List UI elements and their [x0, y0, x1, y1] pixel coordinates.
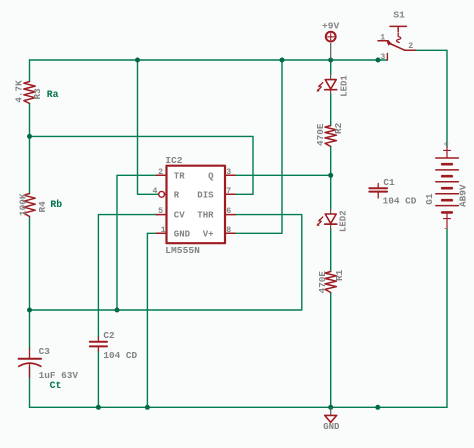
node dot pin1 riser on ground rail — [145, 405, 150, 410]
wire Ra/Rb junction to DIS (net B) — [30, 136, 254, 194]
wire Q output to LED junction — [233, 174, 331, 176]
svg-text:GND: GND — [174, 229, 191, 239]
svg-text:C3: C3 — [39, 346, 51, 357]
svg-text:C1: C1 — [383, 177, 395, 188]
pin 1 GND — [156, 232, 166, 234]
svg-text:8: 8 — [226, 226, 231, 235]
svg-text:6: 6 — [226, 207, 231, 216]
switch pin 2 — [405, 49, 416, 51]
svg-text:DIS: DIS — [197, 190, 214, 200]
pin 3 Q — [225, 174, 235, 176]
battery G1 AB9V — [446, 147, 448, 229]
svg-text:R2: R2 — [333, 122, 344, 134]
node dot Ra/Rb junction — [27, 134, 32, 139]
svg-text:C2: C2 — [103, 330, 115, 341]
wire THR to TR/Ct net y=310 — [30, 215, 302, 310]
node dot Q / LED chain — [328, 173, 333, 178]
svg-text:5: 5 — [158, 207, 163, 216]
capacitor C3 1uF 63V polarized — [29, 349, 31, 378]
svg-text:CV: CV — [174, 211, 185, 221]
svg-text:Q: Q — [208, 171, 214, 181]
wire pin1 GND riser — [147, 233, 158, 407]
node dot C1 riser / switch pin3 — [376, 58, 381, 63]
svg-text:IC2: IC2 — [165, 155, 183, 166]
svg-text:104 CD: 104 CD — [103, 350, 137, 361]
ground GND symbol — [330, 407, 332, 415]
svg-text:GND: GND — [323, 422, 340, 432]
node dot TR riser on y310 — [115, 308, 120, 313]
power +9V symbol — [330, 44, 332, 61]
svg-text:LED2: LED2 — [339, 210, 349, 232]
svg-text:V+: V+ — [203, 229, 214, 239]
wire TR riser — [117, 175, 158, 310]
capacitor C1 104 CD — [377, 184, 379, 199]
pin 8 V+ — [225, 232, 235, 234]
svg-text:1: 1 — [161, 226, 166, 235]
svg-text:TR: TR — [174, 171, 185, 181]
node dot LED chain on ground rail — [328, 405, 333, 410]
svg-text:7: 7 — [226, 187, 231, 196]
switch pin 1 contact — [378, 41, 390, 44]
wire V+ pin8 to +9V rail — [233, 60, 282, 233]
svg-text:470E: 470E — [315, 123, 326, 146]
svg-text:R1: R1 — [334, 269, 345, 281]
switch actuator bar — [390, 26, 406, 31]
resistor R2 470E — [325, 126, 336, 147]
svg-text:AB9V: AB9V — [458, 184, 469, 207]
svg-text:R3: R3 — [32, 88, 43, 100]
svg-text:104 CD: 104 CD — [383, 195, 417, 206]
switch pin 3 — [386, 54, 388, 61]
svg-text:-: - — [443, 224, 448, 234]
svg-text:S1: S1 — [393, 10, 405, 21]
pin 6 THR — [225, 214, 235, 216]
resistor R4 100K — [24, 194, 35, 217]
svg-text:LED1: LED1 — [340, 75, 350, 97]
svg-text:Ct: Ct — [50, 380, 62, 391]
svg-text:3: 3 — [380, 53, 385, 62]
capacitor C2 104 CD — [97, 337, 99, 351]
wire battery bottom — [446, 229, 448, 408]
svg-text:1: 1 — [380, 34, 385, 43]
svg-text:Rb: Rb — [50, 199, 62, 210]
LED1 — [330, 75, 332, 95]
svg-text:470E: 470E — [317, 271, 328, 294]
wire top +9V rail y=60 — [30, 59, 388, 61]
svg-text:100K: 100K — [18, 193, 29, 216]
svg-text:THR: THR — [197, 211, 214, 221]
svg-text:Ra: Ra — [47, 89, 59, 100]
resistor R3 4.7K — [24, 82, 35, 104]
svg-text:G1: G1 — [424, 193, 435, 205]
wire reset pin4 to +9V — [138, 60, 159, 194]
LED2 — [330, 209, 332, 228]
wire switch to battery — [416, 50, 447, 147]
switch lever — [388, 43, 405, 51]
wire left trunk segments — [29, 60, 31, 407]
pin 5 CV — [156, 214, 166, 216]
pin 2 TR — [156, 174, 166, 176]
pin 7 DIS — [225, 193, 235, 195]
svg-text:3: 3 — [226, 168, 231, 177]
op IC2 LM555N box — [167, 166, 226, 244]
wire LED chain x=330.7 — [330, 60, 332, 407]
wire bottom ground rail — [30, 406, 448, 408]
wire CV to C2 — [98, 215, 158, 408]
svg-text:4.7K: 4.7K — [13, 80, 24, 103]
svg-text:R: R — [174, 190, 180, 200]
svg-text:+: + — [444, 139, 449, 149]
svg-text:4: 4 — [152, 187, 157, 196]
node dot C2 on ground rail — [96, 405, 101, 410]
svg-text:2: 2 — [408, 42, 413, 51]
svg-text:R4: R4 — [37, 201, 48, 213]
pin 4 R bubble — [159, 191, 165, 197]
node dot trunk / y310 — [27, 308, 32, 313]
node dot +9V stem — [328, 58, 333, 63]
node dot V+ riser on +9V rail — [280, 58, 285, 63]
resistor R1 470E — [325, 272, 336, 293]
svg-text:2: 2 — [158, 168, 163, 177]
node dot pin4 riser on +9V rail — [135, 58, 140, 63]
svg-text:LM555N: LM555N — [165, 245, 200, 256]
svg-text:+9V: +9V — [322, 21, 340, 32]
node dot C1 on ground rail — [375, 405, 380, 410]
